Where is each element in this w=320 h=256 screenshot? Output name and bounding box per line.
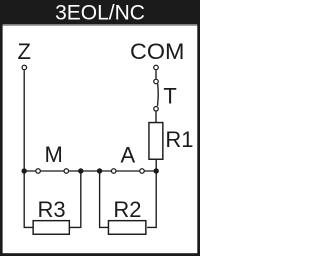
svg-text:R1: R1	[165, 127, 193, 152]
svg-text:R2: R2	[113, 197, 141, 222]
svg-text:Z: Z	[17, 39, 30, 64]
svg-text:3EOL/NC: 3EOL/NC	[55, 2, 145, 25]
svg-text:A: A	[120, 142, 135, 167]
svg-text:COM: COM	[130, 39, 184, 64]
svg-text:R3: R3	[38, 197, 66, 222]
svg-text:T: T	[163, 83, 176, 108]
svg-text:M: M	[45, 142, 63, 167]
